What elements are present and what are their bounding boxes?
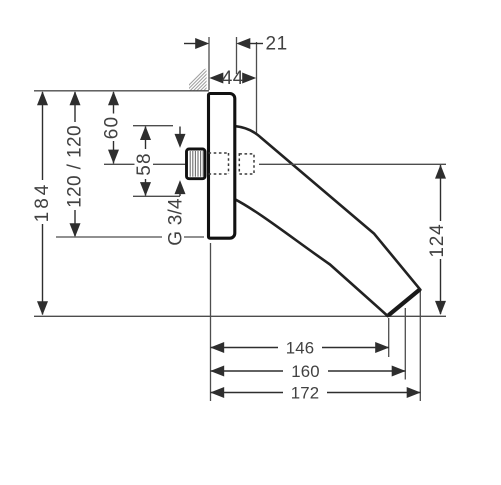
dimension G 3/4 arrows [179,127,181,197]
extension line x209 above plate [208,37,210,90]
wall hatching [179,66,232,95]
extension line x236.5 [236,37,238,74]
dimension 184 [42,92,44,315]
extension line below plate left [210,243,212,401]
extension line plate bottom [56,236,204,238]
svg-text:146: 146 [286,338,315,357]
extension line tip x405.3 [404,308,406,380]
hidden bore dashed box in plate [209,153,229,174]
axis extension line left [104,163,135,165]
dimension 124 [440,165,442,314]
nipple thread lines [190,151,203,177]
wall plate [209,94,235,239]
svg-text:60: 60 [102,116,123,140]
extension line x256.5 [256,42,258,133]
extension line 58 top [133,125,173,127]
spout body [234,126,420,316]
svg-text:44: 44 [222,68,244,89]
axis extension line right [259,163,446,165]
svg-text:160: 160 [291,362,320,381]
svg-text:172: 172 [291,383,320,402]
spout end face [389,290,420,316]
dimension 172 [211,392,421,394]
svg-text:21: 21 [266,34,288,55]
dimension 21 [184,43,263,45]
dimension 160 [211,370,406,372]
dimension 60 [113,92,115,164]
svg-text:124: 124 [427,223,448,257]
dimension 58 [145,127,147,196]
extension line tip x388.7 [388,318,390,357]
hidden bore dashed box in spout [239,154,254,174]
threaded nipple G3/4 [187,149,206,179]
extension line 58 bottom [133,195,180,197]
svg-text:58: 58 [134,152,155,176]
bottom reference line [34,315,446,317]
axis extension line left part2 [153,163,186,165]
svg-text:G 3/4: G 3/4 [166,198,187,246]
extension line tip x420.3 [419,291,421,401]
top reference line [34,90,209,92]
svg-text:184: 184 [32,182,53,223]
svg-text:120 / 120: 120 / 120 [65,125,86,208]
dimension 146 [211,347,390,349]
dimension 44 [209,73,223,84]
dimension 120/120 [74,92,76,236]
